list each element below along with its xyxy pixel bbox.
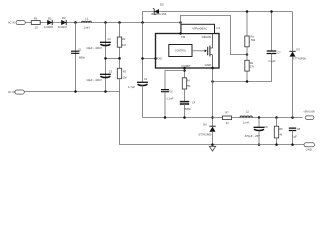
- wire C4 comp to out rail: [184, 104, 186, 118]
- svg-text:10µF - 400V: 10µF - 400V: [86, 46, 102, 50]
- capacitor C5: [161, 90, 174, 101]
- diode D2: [58, 16, 68, 29]
- svg-text:1M: 1M: [123, 75, 127, 79]
- wire R4 to C4 comp: [184, 89, 186, 102]
- svg-text:C2: C2: [107, 37, 111, 41]
- wire main input rail: [25, 22, 181, 24]
- resistor Ra: [245, 34, 256, 47]
- transistor mosfet: [208, 34, 213, 69]
- svg-text:D5: D5: [160, 2, 164, 6]
- svg-text:1mH: 1mH: [84, 25, 90, 29]
- wire D3 to out rail: [292, 57, 294, 118]
- resistor R2: [117, 37, 126, 47]
- svg-text:1M: 1M: [122, 43, 126, 47]
- capacitor C2: [86, 37, 111, 50]
- inductor L1: [82, 16, 92, 29]
- diode D3: [289, 12, 306, 61]
- svg-text:C4: C4: [192, 101, 196, 105]
- svg-text:D3: D3: [296, 48, 300, 52]
- wire C5 to out rail: [164, 92, 166, 118]
- svg-text:DRAIN: DRAIN: [202, 35, 211, 39]
- svg-text:D4: D4: [203, 122, 207, 126]
- wire switch node column: [212, 68, 214, 126]
- wire AC neutral rail: [22, 90, 120, 144]
- wire C7 column: [271, 12, 273, 51]
- svg-text:680n: 680n: [185, 107, 192, 111]
- svg-text:D2: D2: [62, 16, 66, 20]
- svg-text:1mH: 1mH: [243, 120, 249, 124]
- wire divider column: [246, 12, 248, 82]
- wire FB riser: [181, 16, 248, 55]
- svg-text:COMP: COMP: [181, 64, 190, 68]
- capacitor C8: [289, 127, 301, 144]
- inductor L2: [240, 110, 252, 125]
- svg-text:CONTROL: CONTROL: [175, 51, 187, 53]
- resistor R1: [31, 17, 40, 30]
- resistor R4: [182, 78, 191, 89]
- wire C7 to gnd rail: [213, 54, 272, 82]
- node junction dots on main rail: [74, 21, 182, 24]
- wire VDD column lower: [142, 86, 144, 118]
- svg-text:1N4007: 1N4007: [44, 25, 54, 29]
- svg-text:1N4007: 1N4007: [58, 25, 68, 29]
- diode D1: [44, 17, 54, 30]
- wire COMP node: [184, 68, 186, 78]
- svg-text:+5V/0.6A: +5V/0.6A: [303, 110, 315, 114]
- wire top rail: [143, 12, 293, 23]
- svg-text:C8: C8: [297, 127, 301, 131]
- svg-text:56k: 56k: [251, 38, 256, 42]
- svg-text:75k: 75k: [186, 84, 191, 88]
- svg-text:27k: 27k: [250, 65, 255, 69]
- svg-text:R2: R2: [122, 37, 126, 41]
- svg-text:1µF: 1µF: [292, 134, 297, 138]
- svg-text:GND: GND: [205, 63, 213, 67]
- wire gate arrow: [192, 49, 207, 52]
- svg-text:10µF - 400V: 10µF - 400V: [86, 78, 102, 82]
- wire VDD stub: [141, 57, 157, 60]
- svg-text:4.7µF: 4.7µF: [128, 85, 135, 89]
- svg-text:AC IN: AC IN: [8, 22, 15, 25]
- resistor R7: [223, 110, 232, 125]
- svg-text:AC IN: AC IN: [8, 91, 15, 94]
- svg-text:L1: L1: [85, 16, 89, 20]
- svg-text:L2: L2: [246, 110, 250, 114]
- svg-text:C6: C6: [265, 125, 269, 129]
- wire output rail: [143, 117, 303, 119]
- svg-text:680n: 680n: [79, 55, 86, 59]
- svg-text:R6: R6: [279, 127, 283, 131]
- capacitor C4: [128, 77, 148, 89]
- resistor Rb: [245, 60, 255, 71]
- svg-text:BZW06-154: BZW06-154: [151, 12, 166, 16]
- svg-text:10: 10: [34, 26, 38, 30]
- wire VDD column: [142, 23, 144, 83]
- wire midpoint tie: [104, 57, 121, 60]
- svg-text:STTH1R06: STTH1R06: [293, 57, 307, 61]
- svg-text:U1: U1: [216, 26, 220, 30]
- svg-text:C3: C3: [109, 69, 113, 73]
- capacitor C7: [267, 51, 281, 63]
- wire column R2 R3: [119, 23, 121, 92]
- connector AC IN 1: [8, 21, 25, 25]
- svg-text:R3: R3: [123, 70, 127, 74]
- connector output: [303, 110, 315, 120]
- svg-text:STTH1R06: STTH1R06: [199, 132, 213, 136]
- svg-text:FB: FB: [181, 35, 185, 39]
- svg-text:C4: C4: [144, 77, 148, 81]
- svg-text:C5: C5: [169, 90, 173, 94]
- IC U1 VIPer06 body box: [156, 34, 220, 69]
- wire bottom rail: [120, 144, 305, 146]
- svg-text:GND: GND: [306, 148, 312, 152]
- svg-text:470µF - 25V: 470µF - 25V: [245, 134, 261, 138]
- svg-text:R4: R4: [186, 78, 190, 82]
- wire comp branch: [165, 71, 185, 90]
- svg-text:D1: D1: [48, 17, 52, 21]
- svg-text:VIPer06XC: VIPer06XC: [192, 26, 208, 30]
- svg-text:R1: R1: [34, 17, 38, 21]
- svg-text:2.2µF: 2.2µF: [268, 59, 275, 63]
- wire column electrolytics: [105, 23, 107, 92]
- connector AC IN 2: [8, 90, 24, 94]
- svg-text:1.1nF: 1.1nF: [166, 96, 173, 100]
- svg-text:C1: C1: [78, 48, 82, 52]
- capacitor C4 comp: [180, 101, 196, 112]
- svg-text:Ra: Ra: [251, 34, 255, 38]
- capacitor C1: [71, 48, 86, 60]
- U1 label box: [181, 24, 220, 33]
- capacitor C3: [86, 69, 112, 82]
- resistor R6: [274, 118, 283, 145]
- svg-text:Rb: Rb: [250, 61, 254, 65]
- connector gnd: [304, 143, 315, 152]
- svg-text:R7: R7: [225, 110, 229, 114]
- svg-text:VDD: VDD: [156, 57, 163, 61]
- control block: [169, 45, 192, 57]
- wire column C1: [75, 23, 77, 92]
- wire D4 to ground: [212, 132, 214, 147]
- capacitor C6: [245, 118, 269, 146]
- diode D4: [199, 122, 216, 136]
- ground: [209, 146, 215, 151]
- resistor R3: [117, 68, 126, 79]
- svg-text:C7: C7: [277, 51, 281, 55]
- diode D5: [151, 2, 166, 15]
